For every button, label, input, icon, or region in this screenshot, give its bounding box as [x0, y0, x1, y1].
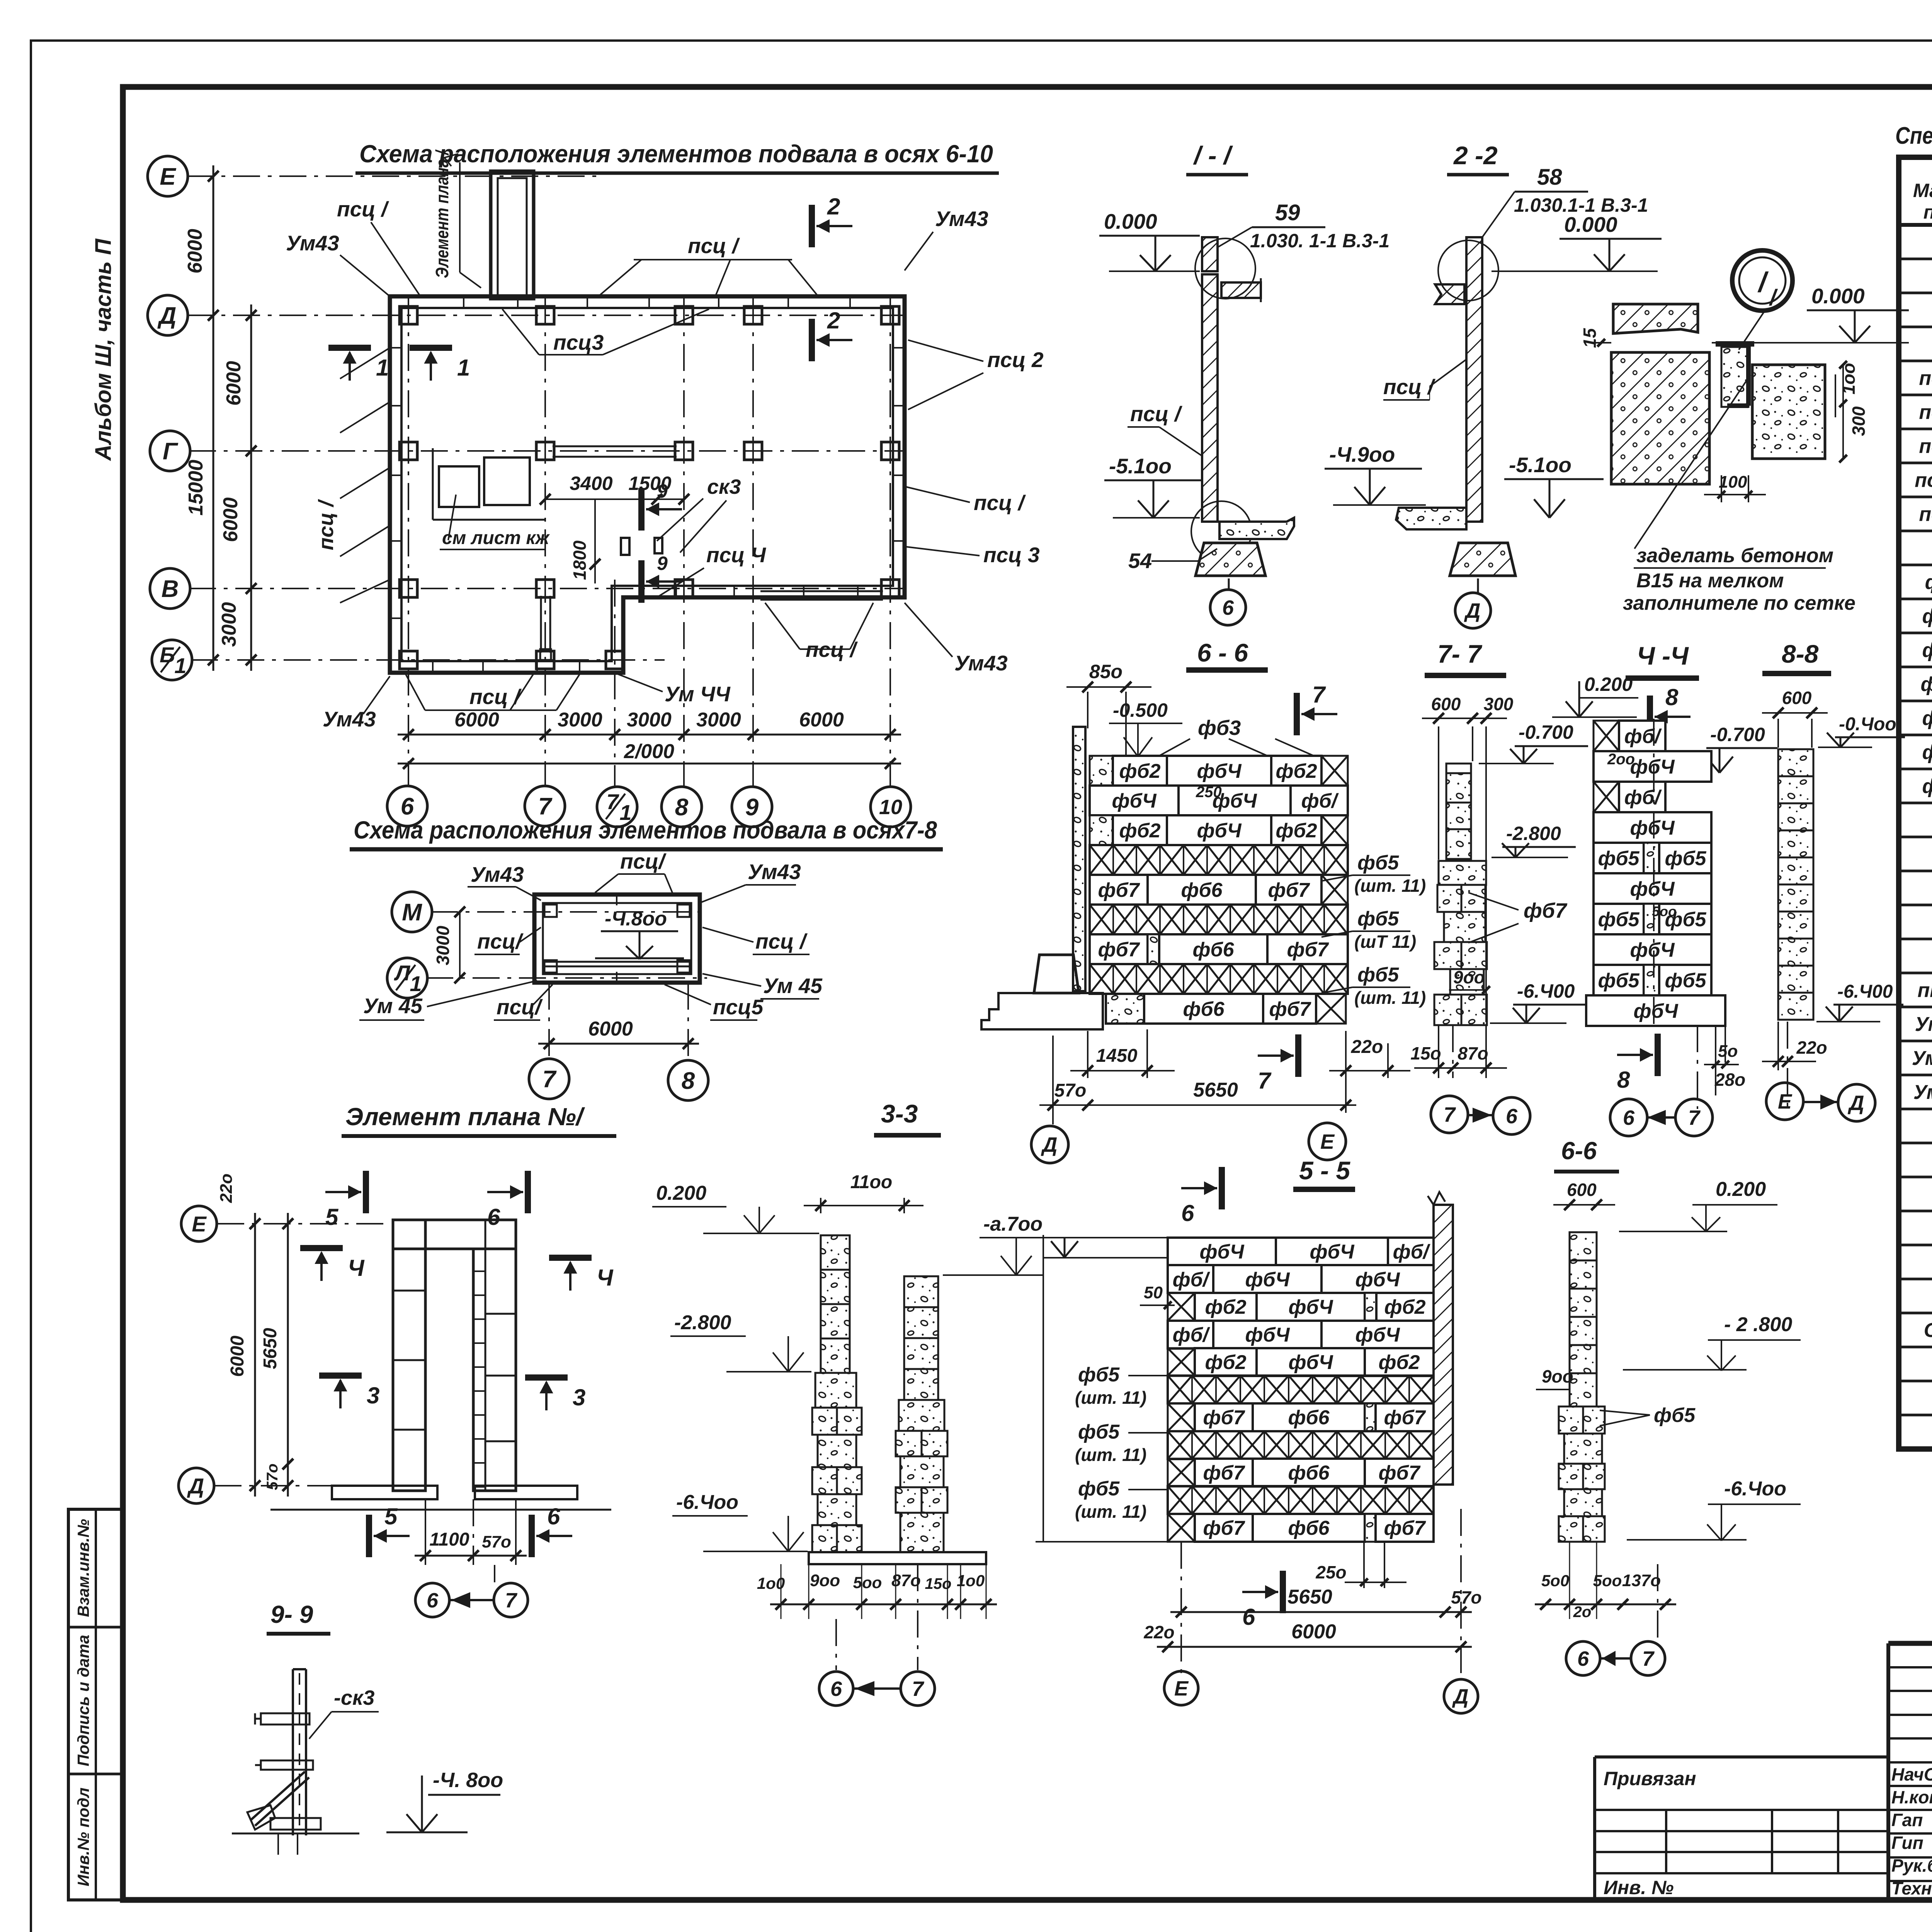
svg-text:-ск3: -ск3	[334, 1686, 374, 1709]
wall joint ticks	[463, 296, 464, 308]
svg-text:5о: 5о	[1718, 1042, 1738, 1061]
section 8-8 bottom dim 220	[1777, 1022, 1779, 1070]
svg-text:Ум43: Ум43	[935, 207, 988, 231]
svg-text:5: 5	[325, 1204, 339, 1230]
svg-text:НачОТЭП: НачОТЭП	[1891, 1764, 1932, 1784]
svg-text:фб7: фб7	[1384, 1517, 1426, 1539]
svg-text:-0.700: -0.700	[1519, 721, 1573, 743]
detail 1 upper slab	[1613, 304, 1698, 333]
svg-text:2: 2	[827, 194, 840, 219]
detail 1 right concrete block	[1752, 365, 1825, 459]
svg-text:300: 300	[1849, 406, 1869, 436]
svg-text:Е: Е	[192, 1212, 207, 1236]
svg-text:Д: Д	[1848, 1092, 1864, 1115]
svg-text:фб7: фб7	[1203, 1462, 1245, 1484]
svg-text:фбЧ: фбЧ	[1112, 790, 1156, 812]
svg-text:/ - /: / - /	[1193, 141, 1233, 170]
svg-text:-2.800: -2.800	[1506, 823, 1561, 844]
building inner wall line	[401, 308, 893, 661]
element plan 1 bottom flanges	[332, 1486, 437, 1499]
grid circles 6..10	[387, 786, 427, 826]
svg-text:Д: Д	[157, 303, 177, 329]
left margin stamp boxes	[68, 1509, 123, 1900]
svg-text:фб5: фб5	[1665, 969, 1706, 992]
svg-text:фб5: фб5	[1922, 707, 1932, 730]
svg-text:фб/: фб/	[1301, 790, 1339, 812]
svg-text:фб2: фб2	[1922, 605, 1932, 628]
svg-text:-6.Ч00: -6.Ч00	[1837, 981, 1893, 1002]
svg-text:6000: 6000	[219, 497, 242, 542]
grid line 10	[889, 298, 891, 788]
svg-text:25о: 25о	[1315, 1562, 1346, 1582]
svg-text:22о: 22о	[1351, 1037, 1383, 1057]
element plan 1 axis Е	[181, 1206, 217, 1242]
svg-text:фбЧ: фбЧ	[1245, 1324, 1290, 1346]
svg-text:-Ч.9оо: -Ч.9оо	[1329, 442, 1395, 466]
svg-text:фб2: фб2	[1205, 1351, 1246, 1374]
svg-text:6-6: 6-6	[1561, 1137, 1597, 1165]
svg-text:300: 300	[1484, 694, 1514, 714]
svg-text:фб7: фб7	[1098, 939, 1140, 961]
svg-text:Гип: Гип	[1891, 1833, 1923, 1853]
svg-text:7: 7	[505, 1589, 518, 1612]
svg-text:28о: 28о	[1714, 1070, 1745, 1090]
svg-text:фбЧ: фбЧ	[1630, 939, 1675, 961]
svg-text:псц /: псц /	[1130, 402, 1183, 426]
svg-text:6000: 6000	[223, 361, 245, 406]
svg-text:15о: 15о	[1410, 1043, 1441, 1063]
svg-text:фб3: фб3	[1922, 639, 1932, 662]
svg-text:0.000: 0.000	[1104, 209, 1157, 233]
svg-text:3000: 3000	[433, 925, 453, 965]
svg-text:Инв.№ подл: Инв.№ подл	[74, 1787, 92, 1886]
svg-text:600: 600	[1567, 1180, 1597, 1200]
svg-text:-0.Чоо: -0.Чоо	[1839, 714, 1896, 735]
svg-text:псц5: псц5	[713, 995, 764, 1019]
section flag 2 bottom	[809, 319, 815, 361]
svg-text:Подпись и дата: Подпись и дата	[74, 1635, 92, 1766]
beam on axis Г	[553, 446, 677, 447]
spec table grid	[1899, 157, 1932, 1449]
svg-text:-6.Чоо: -6.Чоо	[676, 1491, 738, 1514]
svg-text:Г: Г	[163, 438, 179, 465]
svg-text:фб2: фб2	[1276, 760, 1317, 782]
column squares	[400, 306, 417, 324]
svg-text:7: 7	[1312, 682, 1326, 707]
svg-text:22о: 22о	[1796, 1037, 1827, 1058]
svg-text:Техник: Техник	[1891, 1878, 1932, 1898]
svg-text:ск3: ск3	[707, 475, 741, 498]
svg-text:фб/: фб/	[1624, 725, 1662, 748]
wall panel on axis В right	[760, 590, 883, 592]
svg-text:псц /: псц /	[1919, 367, 1932, 389]
svg-text:псц Ч: псц Ч	[706, 543, 766, 567]
svg-text:Марка: Марка	[1913, 180, 1932, 201]
svg-text:СК3: СК3	[1924, 1319, 1932, 1342]
svg-text:Ум ЧЧ: Ум ЧЧ	[665, 682, 731, 706]
svg-text:Ч: Ч	[348, 1255, 365, 1281]
svg-text:50: 50	[1144, 1283, 1163, 1302]
svg-text:2/000: 2/000	[624, 740, 674, 763]
section flag 1 left	[328, 345, 371, 351]
axis circle Л/1	[387, 958, 427, 998]
svg-text:фб5: фб5	[1598, 908, 1639, 931]
svg-text:57о: 57о	[1054, 1080, 1087, 1101]
svg-text:см лист кж: см лист кж	[442, 528, 550, 548]
axis line Е	[187, 175, 603, 177]
svg-text:137о: 137о	[1622, 1571, 1661, 1590]
svg-text:6: 6	[1242, 1604, 1255, 1630]
detail 1 dims right	[1835, 374, 1836, 417]
svg-text:(шт. 11): (шт. 11)	[1075, 1388, 1146, 1408]
svg-text:Ум 45: Ум 45	[363, 994, 423, 1018]
svg-text:Ум43: Ум43	[286, 231, 339, 255]
element plan 1 axis Д	[179, 1468, 214, 1503]
svg-text:фб6: фб6	[1922, 741, 1932, 764]
svg-text:0.200: 0.200	[1716, 1178, 1766, 1201]
svg-text:6: 6	[547, 1503, 560, 1529]
svg-text:5оо: 5оо	[1652, 903, 1677, 919]
section 1-1 top slab	[1221, 282, 1261, 298]
svg-text:6: 6	[1577, 1647, 1589, 1670]
svg-text:3400: 3400	[570, 473, 612, 494]
section 7-7 dims top	[1438, 726, 1439, 860]
svg-text:В15 на мелком: В15 на мелком	[1636, 570, 1784, 592]
svg-text:фбЧ: фбЧ	[1630, 878, 1675, 900]
svg-text:псц 3: псц 3	[983, 543, 1040, 567]
bottom dim chain segments	[398, 734, 901, 736]
svg-text:5650: 5650	[260, 1328, 281, 1369]
section 3-3 axis circles 6-7	[835, 1619, 837, 1670]
svg-text:6: 6	[1222, 596, 1234, 619]
svg-text:9оо: 9оо	[810, 1571, 840, 1590]
CK3 posts	[621, 538, 629, 555]
detail 1 left concrete block	[1611, 352, 1709, 484]
svg-text:фб5: фб5	[1078, 1478, 1120, 1500]
grid line 6	[408, 298, 409, 787]
bottom dim chain 21000	[398, 763, 901, 765]
svg-text:54: 54	[1128, 549, 1152, 573]
svg-text:псц /: псц /	[974, 491, 1026, 515]
section 5-5 right hatched panel	[1434, 1205, 1453, 1485]
svg-text:Б: Б	[160, 643, 175, 667]
svg-text:-Ч.8оо: -Ч.8оо	[605, 908, 667, 930]
section 6-6 footing base slab	[981, 993, 1103, 1029]
svg-text:Ум43: Ум43	[323, 707, 376, 731]
svg-text:6000: 6000	[227, 1335, 248, 1377]
svg-text:псц/: псц/	[477, 929, 524, 953]
svg-text:57о: 57о	[482, 1532, 511, 1551]
svg-text:1: 1	[457, 355, 470, 381]
axis circle Е	[148, 156, 188, 196]
svg-text:фбЧ: фбЧ	[1630, 817, 1675, 839]
svg-text:псц Ч: псц Ч	[1915, 469, 1932, 492]
svg-text:58: 58	[1537, 165, 1562, 190]
section 1-1 node circle bottom	[1191, 501, 1252, 561]
svg-text:-2.800: -2.800	[674, 1311, 731, 1334]
svg-text:7: 7	[606, 789, 619, 814]
svg-text:(шт. 11): (шт. 11)	[1075, 1502, 1146, 1522]
section flag 2 top	[809, 205, 815, 247]
grid circle 8 small plan	[668, 1060, 708, 1100]
dim 1800	[594, 499, 596, 583]
svg-text:псц/: псц/	[620, 849, 667, 873]
svg-text:заделать бетоном: заделать бетоном	[1636, 544, 1833, 567]
interior rooms см.лист КЖ	[439, 466, 479, 507]
section 6-6 axis circles	[1031, 1126, 1068, 1163]
svg-text:6: 6	[1506, 1105, 1518, 1128]
svg-text:22о: 22о	[217, 1173, 236, 1203]
svg-text:3: 3	[573, 1384, 585, 1410]
svg-text:Инв. №: Инв. №	[1604, 1877, 1673, 1898]
svg-text:псц /: псц /	[1383, 375, 1436, 399]
svg-text:фбЧ: фбЧ	[1630, 756, 1675, 778]
svg-text:57о: 57о	[264, 1464, 281, 1490]
svg-text:фб2: фб2	[1276, 820, 1317, 842]
axis line М	[431, 911, 707, 913]
svg-text:Ум Ч5: Ум Ч5	[1913, 1081, 1932, 1104]
svg-text:фб5: фб5	[1598, 969, 1639, 992]
svg-text:(шТ 11): (шТ 11)	[1354, 932, 1416, 952]
grid circle 7 small plan	[529, 1059, 569, 1099]
svg-text:8: 8	[1665, 684, 1679, 710]
svg-text:2о: 2о	[1573, 1604, 1592, 1621]
svg-text:-5.1оо: -5.1оо	[1109, 454, 1172, 478]
svg-text:псц/: псц/	[497, 995, 543, 1019]
section 3-3 left tower	[821, 1235, 850, 1270]
svg-text:Е: Е	[1174, 1677, 1189, 1700]
svg-text:Е: Е	[1320, 1130, 1335, 1153]
section 1-1 footing	[1196, 543, 1265, 576]
svg-text:1100: 1100	[429, 1529, 469, 1550]
svg-text:фб2: фб2	[1378, 1351, 1420, 1374]
svg-text:фбЧ: фбЧ	[1245, 1269, 1290, 1291]
dim 3000 left	[459, 912, 461, 978]
grid line 8	[683, 298, 685, 788]
section 6-6 flag 7 bottom	[1295, 1034, 1301, 1077]
svg-text:Ч -Ч: Ч -Ч	[1637, 641, 1689, 670]
svg-text:600: 600	[1782, 688, 1812, 708]
svg-text:Спецификация к схеме располож: Спецификация к схеме расположения элемен…	[1895, 122, 1932, 149]
stair shaft plan	[491, 171, 534, 299]
svg-text:фб7: фб7	[1203, 1406, 1245, 1429]
svg-text:1800: 1800	[570, 540, 590, 580]
svg-text:фб6: фб6	[1192, 939, 1234, 961]
svg-text:Ум43: Ум43	[748, 860, 801, 884]
svg-text:6: 6	[427, 1589, 439, 1612]
svg-text:6: 6	[1181, 1200, 1194, 1226]
svg-text:Схема расположения элементов: Схема расположения элементов подвала в о…	[354, 816, 937, 844]
svg-text:- 2 .800: - 2 .800	[1724, 1313, 1792, 1336]
svg-text:фб6: фб6	[1183, 998, 1225, 1020]
svg-text:фбЧ: фбЧ	[1633, 1000, 1678, 1022]
section 4-4 flag 8 top	[1647, 696, 1653, 738]
section 5-5 flag 6 top	[1219, 1167, 1225, 1209]
detail 1 ring	[1732, 250, 1793, 311]
element plan 1 axis circles 6-7	[415, 1583, 449, 1617]
svg-text:заполнителе по сетке: заполнителе по сетке	[1623, 592, 1855, 614]
section 7-7 bottom dims	[1438, 1025, 1439, 1078]
axis circle Б/1	[152, 640, 192, 680]
title block personnel grid	[1888, 1666, 1932, 1668]
svg-text:100: 100	[1719, 473, 1747, 492]
svg-text:3000: 3000	[218, 602, 240, 647]
svg-text:Л: Л	[394, 961, 411, 985]
grid line 7	[544, 298, 546, 787]
svg-text:-6.Ч00: -6.Ч00	[1517, 980, 1575, 1002]
detail 1 joint concrete fill	[1721, 347, 1748, 407]
svg-text:-0.700: -0.700	[1710, 724, 1765, 745]
svg-text:фб7: фб7	[1384, 1406, 1426, 1429]
svg-text:-0.500: -0.500	[1113, 699, 1168, 721]
svg-text:фб5: фб5	[1654, 1404, 1696, 1427]
section flag 1 right	[410, 345, 452, 351]
svg-text:(шт. 11): (шт. 11)	[1354, 988, 1426, 1008]
svg-text:59: 59	[1275, 200, 1300, 225]
section 4-4 flag 8 bottom	[1655, 1034, 1661, 1076]
axis circle М	[392, 892, 432, 932]
svg-text:фбЧ: фбЧ	[1920, 673, 1932, 696]
svg-text:0.000: 0.000	[1811, 284, 1865, 308]
svg-text:9оо: 9оо	[1453, 967, 1485, 987]
svg-text:фб3: фб3	[1198, 716, 1241, 740]
section 6-6 dim 850	[1087, 692, 1088, 728]
section 9-9 diagonal brace	[250, 1772, 305, 1820]
svg-text:фб6: фб6	[1288, 1406, 1330, 1429]
svg-text:фб6: фб6	[1181, 879, 1223, 901]
svg-text:5о0: 5о0	[1541, 1571, 1569, 1590]
svg-text:1.030. 1-1 В.3-1: 1.030. 1-1 В.3-1	[1250, 230, 1389, 252]
section 6-6 flag 7 top	[1294, 693, 1300, 735]
svg-text:фб5: фб5	[1665, 847, 1706, 870]
svg-text:-6.Чоо: -6.Чоо	[1724, 1478, 1786, 1500]
svg-text:Рук.бр: Рук.бр	[1891, 1855, 1932, 1876]
section 1-1 bottom slab	[1219, 518, 1294, 539]
svg-text:псц3: псц3	[553, 330, 604, 354]
section 5-5 axis circles Е Д	[1164, 1671, 1198, 1705]
section 7-7 axis circles 7-6	[1431, 1096, 1468, 1133]
svg-text:фб6: фб6	[1288, 1517, 1330, 1539]
section 5-5 level line from -0.700	[1043, 1257, 1167, 1259]
svg-text:Д: Д	[1041, 1133, 1058, 1156]
svg-text:9оо: 9оо	[1542, 1366, 1573, 1386]
svg-text:Элемент плана №/: Элемент плана №/	[345, 1103, 585, 1131]
svg-text:7: 7	[1688, 1106, 1701, 1129]
svg-text:фбЧ: фбЧ	[1355, 1324, 1400, 1346]
section 2-2 node circle	[1438, 240, 1498, 301]
svg-text:15000: 15000	[185, 460, 207, 516]
svg-text:10: 10	[879, 796, 902, 819]
svg-text:7: 7	[1642, 1647, 1655, 1670]
svg-text:0.200: 0.200	[1584, 673, 1633, 695]
detail 1 leader 1	[1739, 309, 1766, 350]
section 2-2 top left piece	[1435, 284, 1464, 304]
svg-text:9: 9	[657, 553, 668, 574]
svg-text:фб2: фб2	[1119, 760, 1160, 782]
svg-text:фб7: фб7	[1269, 998, 1311, 1020]
svg-text:фб7: фб7	[1287, 939, 1329, 961]
section 4-4 block rows	[1594, 721, 1619, 751]
section 3-3 footing slab	[809, 1552, 986, 1564]
svg-text:Взам.инв.№: Взам.инв.№	[74, 1519, 92, 1617]
svg-text:Ум ЧЧ: Ум ЧЧ	[1912, 1047, 1932, 1070]
section 1-1 node circle top	[1195, 238, 1255, 299]
svg-text:Д: Д	[1464, 599, 1481, 622]
building outer wall	[390, 296, 905, 673]
section flag 9 top	[638, 488, 645, 531]
svg-text:7: 7	[1444, 1103, 1456, 1126]
svg-text:фб7: фб7	[1922, 775, 1932, 798]
svg-text:фб5: фб5	[1357, 908, 1399, 930]
svg-text:Е: Е	[1778, 1090, 1793, 1113]
svg-text:-а.7оо: -а.7оо	[983, 1213, 1043, 1235]
svg-text:Е: Е	[160, 163, 176, 190]
svg-text:Гап: Гап	[1891, 1810, 1923, 1830]
title block outer	[1888, 1641, 1932, 1646]
section 7-7 column blocks	[1446, 764, 1471, 773]
svg-text:22о: 22о	[1143, 1622, 1174, 1642]
axis circle Д	[148, 295, 188, 335]
svg-text:250: 250	[1196, 784, 1222, 801]
section 6-6 bottom dims	[1087, 1031, 1088, 1078]
svg-text:7: 7	[912, 1677, 925, 1701]
wall between В and Б/1 on axis 7	[540, 596, 542, 653]
svg-text:9- 9: 9- 9	[270, 1600, 313, 1628]
svg-text:фбЧ: фбЧ	[1288, 1296, 1333, 1318]
svg-text:6000: 6000	[454, 709, 499, 731]
svg-text:фб/: фб/	[1173, 1269, 1211, 1291]
svg-text:7: 7	[543, 1066, 557, 1093]
svg-text:фб5: фб5	[1357, 964, 1399, 986]
svg-text:фбЧ: фбЧ	[1310, 1241, 1354, 1263]
svg-text:Альбом Ш, часть П: Альбом Ш, часть П	[91, 238, 116, 461]
svg-text:Н.контр: Н.контр	[1891, 1787, 1932, 1807]
svg-text:0.000: 0.000	[1564, 213, 1617, 236]
svg-text:5 - 5: 5 - 5	[1299, 1156, 1350, 1185]
svg-text:фб5: фб5	[1078, 1364, 1120, 1386]
svg-text:псц /: псц /	[337, 197, 389, 221]
axis circle Г	[150, 431, 190, 471]
privyazan box	[1595, 1755, 1888, 1759]
svg-text:3000: 3000	[558, 709, 602, 731]
section 6-6 lower column	[1570, 1232, 1597, 1260]
svg-text:1: 1	[376, 355, 389, 381]
section 5-5 flag 6 bottom	[1280, 1571, 1286, 1613]
svg-text:псц /: псц /	[315, 499, 338, 550]
section 6-6 left panel	[1073, 727, 1085, 991]
svg-text:2: 2	[827, 308, 840, 333]
svg-text:фб5: фб5	[1598, 847, 1639, 870]
section 5-5 left extension lines	[1036, 1237, 1167, 1238]
svg-text:8: 8	[1617, 1067, 1630, 1093]
svg-text:5650: 5650	[1193, 1079, 1238, 1101]
svg-text:3000: 3000	[696, 709, 741, 731]
section 2-2 axis circle Д	[1477, 578, 1479, 593]
svg-text:6 - 6: 6 - 6	[1197, 638, 1248, 667]
svg-text:-5.1оо: -5.1оо	[1509, 453, 1571, 477]
svg-text:-Ч. 8оо: -Ч. 8оо	[433, 1769, 503, 1792]
section 2-2 footing	[1450, 543, 1515, 576]
svg-text:Привязан: Привязан	[1604, 1768, 1696, 1789]
svg-text:псц2: псц2	[1919, 401, 1932, 423]
svg-text:фб7: фб7	[1268, 879, 1310, 901]
svg-text:5: 5	[384, 1503, 398, 1529]
section 6-6 lower axis circles 6-7	[1566, 1641, 1600, 1675]
section 8-8 column blocks	[1778, 749, 1813, 776]
svg-text:ппм /: ппм /	[1918, 979, 1932, 1002]
svg-text:фбЧ: фбЧ	[1199, 1241, 1244, 1263]
svg-text:В: В	[162, 576, 179, 602]
